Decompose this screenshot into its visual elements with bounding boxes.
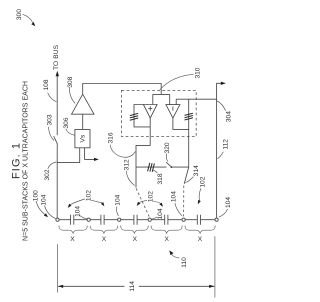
svg-text:Vs: Vs bbox=[80, 134, 87, 142]
brace sub-stack 3 bbox=[121, 226, 149, 234]
svg-text:X: X bbox=[198, 236, 203, 243]
capacitor C2 bbox=[101, 215, 104, 225]
label 104 (node D) bbox=[152, 208, 164, 219]
node F bbox=[215, 218, 218, 221]
svg-text:308: 308 bbox=[67, 76, 74, 87]
label 306 bbox=[63, 117, 75, 135]
wire: U+ output 316 bbox=[136, 118, 150, 188]
wire: left bus lower segment bbox=[56, 145, 58, 219]
label 104 (node F) bbox=[219, 197, 232, 217]
svg-text:X: X bbox=[164, 236, 169, 243]
dashed tap line to node D bbox=[136, 188, 149, 216]
svg-text:100: 100 bbox=[33, 190, 40, 201]
svg-text:112: 112 bbox=[223, 139, 230, 150]
label 310 bbox=[160, 67, 202, 90]
brace sub-stack 5 bbox=[185, 226, 215, 234]
controller dashed box 310 bbox=[122, 90, 197, 136]
svg-text:N=5 SUB-STACKS OF X ULTRACAPIT: N=5 SUB-STACKS OF X ULTRACAPITORS EACH bbox=[22, 81, 29, 241]
capacitor C3 bbox=[134, 215, 137, 225]
switch 303 blade bbox=[54, 136, 58, 144]
svg-text:104: 104 bbox=[157, 208, 164, 219]
svg-text:X: X bbox=[102, 236, 107, 243]
figure number 300 bbox=[16, 9, 35, 27]
svg-text:104: 104 bbox=[170, 191, 177, 202]
voltage source Vs 306 bbox=[75, 130, 90, 148]
svg-text:300: 300 bbox=[16, 9, 23, 20]
label 302 bbox=[44, 162, 57, 181]
svg-text:104: 104 bbox=[225, 197, 232, 208]
label 110 bbox=[169, 250, 188, 267]
svg-text:102: 102 bbox=[85, 190, 92, 201]
wire: U- output bbox=[188, 129, 190, 167]
svg-text:304: 304 bbox=[225, 111, 232, 122]
label 102 (C5) bbox=[198, 176, 207, 204]
resistor 318 wire bbox=[136, 163, 166, 172]
label 104 (node B) bbox=[74, 206, 87, 219]
svg-text:302: 302 bbox=[44, 169, 51, 180]
node D bbox=[148, 218, 151, 221]
brace sub-stack 4 bbox=[151, 226, 182, 234]
svg-text:318: 318 bbox=[157, 173, 164, 184]
svg-text:X: X bbox=[133, 236, 138, 243]
label 316 bbox=[107, 132, 135, 157]
resistor (U+ feedback) bbox=[130, 105, 150, 127]
comparator U+ bbox=[143, 105, 157, 119]
svg-text:303: 303 bbox=[46, 114, 53, 125]
svg-text:X: X bbox=[70, 236, 75, 243]
svg-text:310: 310 bbox=[194, 67, 201, 78]
label 102 (C3,C4) bbox=[137, 191, 163, 207]
label 320 bbox=[164, 142, 171, 161]
svg-text:TO BUS: TO BUS bbox=[53, 44, 60, 70]
label 318 bbox=[152, 170, 164, 185]
label 104 (node A) bbox=[41, 194, 56, 218]
dimension 114 bbox=[57, 236, 215, 297]
label 100 bbox=[33, 190, 48, 217]
svg-text:104: 104 bbox=[115, 194, 122, 205]
label 314 bbox=[185, 165, 200, 183]
label 104 (node E) bbox=[170, 191, 182, 216]
dashed tap line to node E bbox=[183, 186, 185, 217]
svg-text:312: 312 bbox=[123, 159, 130, 170]
label 104 (node C) bbox=[115, 194, 122, 216]
switch 320 bbox=[166, 162, 189, 168]
wire: Vs to bus conductor bbox=[57, 148, 79, 163]
capacitor C5 bbox=[197, 215, 200, 225]
node C bbox=[118, 218, 121, 221]
brace sub-stack 1 bbox=[59, 226, 87, 234]
label 303 bbox=[46, 114, 54, 140]
wire: bus feed to U- input and right bus bbox=[175, 99, 177, 104]
svg-text:314: 314 bbox=[193, 165, 200, 176]
svg-text:114: 114 bbox=[129, 281, 136, 292]
svg-text:102: 102 bbox=[199, 176, 206, 187]
label 308 bbox=[67, 76, 75, 103]
svg-text:306: 306 bbox=[63, 117, 70, 128]
op-amp 308 bbox=[72, 84, 162, 130]
wire: left bus conductor 302 with arrow to bus bbox=[56, 71, 59, 136]
reference arrow from Vs bbox=[85, 148, 99, 161]
label 304 bbox=[217, 101, 232, 122]
switch 314 blade bbox=[184, 167, 189, 184]
node B bbox=[87, 218, 90, 221]
capacitor C1 bbox=[71, 215, 74, 225]
node E bbox=[182, 218, 185, 221]
svg-text:104: 104 bbox=[74, 206, 81, 217]
label 102 (C1,C2) bbox=[68, 190, 105, 208]
svg-text:104: 104 bbox=[41, 194, 48, 205]
label 312 bbox=[123, 159, 134, 186]
wire: drive split to comparators bbox=[153, 93, 170, 95]
wire: series stack rail bbox=[59, 219, 215, 221]
node A bbox=[56, 218, 59, 221]
svg-text:110: 110 bbox=[181, 257, 188, 268]
svg-text:FIG. 1: FIG. 1 bbox=[10, 143, 22, 179]
comparator U- bbox=[166, 105, 180, 119]
label 108 bbox=[43, 79, 56, 102]
capacitor C4 bbox=[165, 215, 168, 225]
brace sub-stack 2 bbox=[90, 226, 118, 234]
label 112 bbox=[217, 139, 229, 159]
svg-text:316: 316 bbox=[107, 132, 114, 143]
resistor (U- feedback) bbox=[173, 99, 193, 129]
svg-text:320: 320 bbox=[164, 142, 171, 153]
svg-text:102: 102 bbox=[147, 191, 154, 202]
wire: right bus conductor 304 with arrow bbox=[217, 82, 226, 218]
svg-text:108: 108 bbox=[43, 79, 50, 90]
